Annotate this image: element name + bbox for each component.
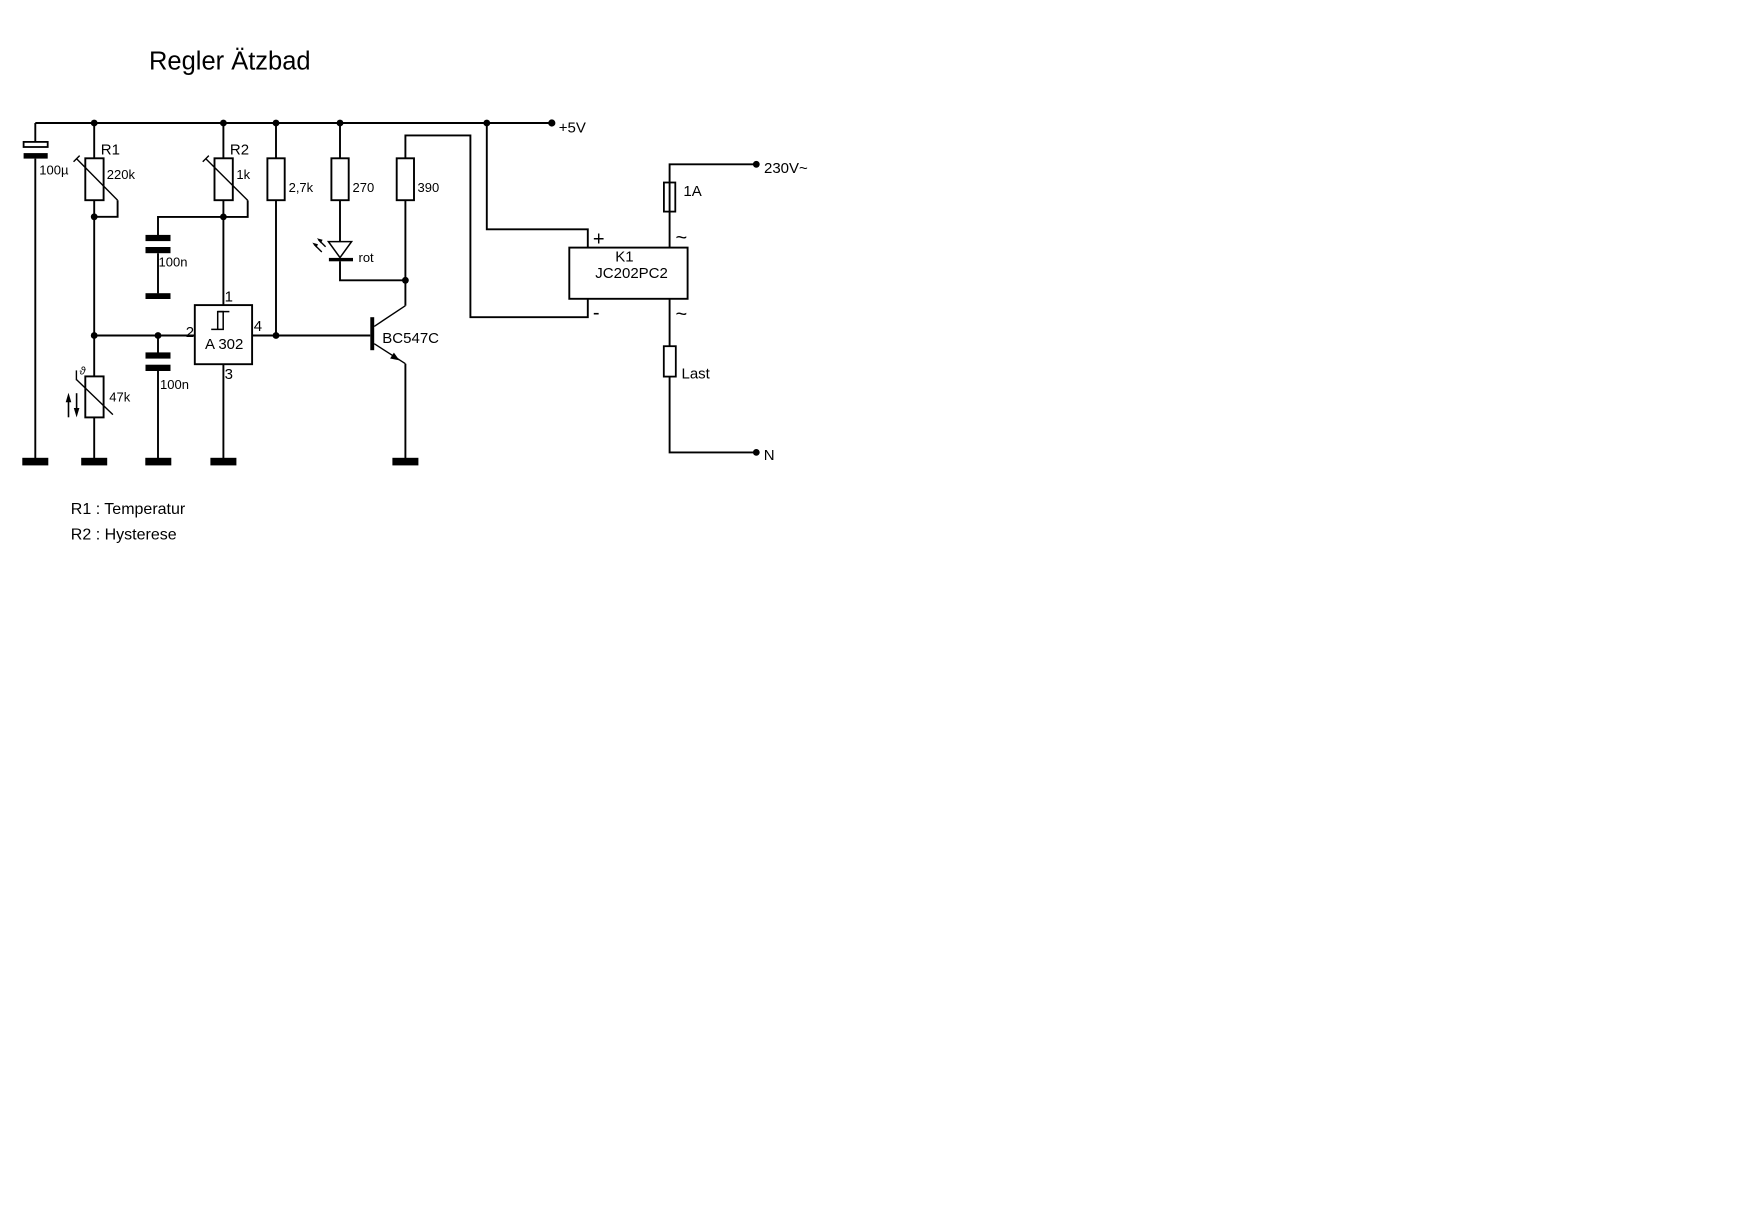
- svg-text:R2: R2: [230, 142, 249, 159]
- wire 390 top bend to K1 minus: [405, 135, 587, 317]
- svg-text:N: N: [764, 447, 775, 464]
- svg-text:+5V: +5V: [559, 119, 586, 136]
- wire +5V rail: [35, 122, 551, 124]
- svg-text:1: 1: [225, 289, 233, 306]
- wire rail to 2,7k: [275, 123, 277, 158]
- wire emitter to ground: [404, 364, 406, 458]
- thermistor arrows up/down: [66, 393, 80, 418]
- wire K1 to fuse and 230V terminal: [670, 164, 757, 247]
- capacitor C2 100n upper: [146, 235, 188, 270]
- wire R2 bottom to A302 pin1: [222, 200, 224, 305]
- svg-text:4: 4: [254, 318, 262, 335]
- node rail junction R1: [91, 120, 98, 127]
- wire junction to C3: [157, 336, 159, 353]
- node rail junction 2,7k: [273, 120, 280, 127]
- node rail junction 270: [337, 120, 344, 127]
- wire rail to R1: [93, 123, 95, 158]
- wire A302 pin3 to ground: [222, 364, 224, 458]
- wire +5V to K1 plus: [487, 123, 588, 248]
- node rail junction K1 feed: [483, 120, 490, 127]
- led D1 rot: [312, 238, 374, 265]
- resistor R6 390: [397, 158, 440, 200]
- node N terminal: [753, 449, 760, 456]
- wire 390 bottom to collector node: [404, 200, 406, 280]
- wire K1 to Last: [669, 299, 671, 346]
- node collector junction: [402, 277, 409, 284]
- wire A302 pin4 row: [252, 335, 370, 337]
- wire 100u to ground: [34, 159, 36, 458]
- capacitor C3 100n lower: [146, 352, 189, 392]
- wire A302 pin2 row: [94, 335, 195, 337]
- wire C3 to ground: [157, 371, 159, 458]
- ground under thermistor: [81, 458, 107, 466]
- svg-text:R1: R1: [101, 142, 120, 159]
- svg-text:270: 270: [353, 180, 375, 195]
- svg-text:220k: 220k: [107, 167, 136, 182]
- svg-text:100n: 100n: [160, 377, 189, 392]
- svg-text:1A: 1A: [683, 183, 701, 200]
- resistor R2 1k potentiometer: [203, 142, 251, 201]
- wire rail to 270: [339, 123, 341, 158]
- resistor R3 2,7k: [267, 158, 313, 200]
- ground under 100u: [22, 458, 48, 466]
- wire junction to C2: [158, 217, 223, 235]
- wire C2 to ground: [157, 253, 159, 293]
- resistor R1 220k potentiometer: [74, 142, 136, 201]
- svg-text:ϑ: ϑ: [80, 365, 87, 377]
- wire collector: [404, 280, 406, 305]
- svg-text:A 302: A 302: [205, 336, 243, 353]
- load Last: [664, 346, 711, 382]
- ground under C2: [146, 293, 171, 299]
- node +5V terminal: [548, 119, 555, 126]
- wire thermistor to ground: [93, 417, 95, 458]
- svg-text:~: ~: [676, 304, 688, 326]
- node pin2 junction left: [91, 332, 98, 339]
- svg-text:230V~: 230V~: [764, 160, 808, 177]
- node rail junction R2: [220, 120, 227, 127]
- svg-text:~: ~: [676, 227, 688, 249]
- wire Last to N terminal: [670, 377, 757, 453]
- svg-text:3: 3: [225, 366, 233, 383]
- svg-text:2: 2: [186, 324, 194, 341]
- svg-text:2,7k: 2,7k: [289, 180, 314, 195]
- svg-text:rot: rot: [359, 250, 375, 265]
- svg-text:Last: Last: [682, 366, 711, 383]
- node R1 wiper junction: [91, 213, 98, 220]
- resistor R4 270: [331, 158, 374, 200]
- node 230V terminal: [753, 161, 760, 168]
- wire 2,7k to base row: [275, 200, 277, 335]
- wire R1 wiper: [94, 200, 117, 217]
- svg-text:R1 : Temperatur: R1 : Temperatur: [71, 501, 186, 518]
- wire rail to R2: [222, 123, 224, 158]
- node pin4 junction 2,7k: [273, 332, 280, 339]
- ground under emitter: [392, 458, 418, 466]
- node R2 wiper junction: [220, 214, 227, 221]
- ground under A302: [210, 458, 236, 466]
- svg-text:K1: K1: [615, 248, 633, 265]
- wire junction to thermistor: [93, 336, 95, 377]
- node pin2 junction C3: [155, 332, 162, 339]
- svg-text:47k: 47k: [109, 390, 130, 405]
- transistor Q1 BC547C: [370, 306, 439, 364]
- svg-text:+: +: [593, 228, 605, 250]
- svg-text:1k: 1k: [236, 167, 250, 182]
- ground under C3: [145, 458, 171, 466]
- wire R1 bottom to pin2 row: [93, 200, 95, 335]
- thermistor R5 47k: [76, 365, 130, 417]
- capacitor C1 100u: [24, 142, 69, 177]
- relay K1 JC202PC2: [569, 248, 687, 299]
- svg-text:R2 : Hysterese: R2 : Hysterese: [71, 526, 177, 543]
- svg-text:390: 390: [418, 180, 440, 195]
- svg-text:-: -: [593, 302, 600, 324]
- wire R2 wiper: [223, 200, 247, 217]
- fuse F1 1A: [664, 183, 702, 212]
- svg-text:100µ: 100µ: [39, 162, 69, 177]
- svg-text:100n: 100n: [159, 255, 188, 270]
- svg-text:JC202PC2: JC202PC2: [595, 265, 668, 282]
- svg-text:BC547C: BC547C: [382, 330, 439, 347]
- ic U1 A302: [195, 305, 252, 364]
- wire 270 to LED: [339, 200, 341, 241]
- wire 100u branch top: [34, 123, 36, 141]
- svg-text:Regler Ätzbad: Regler Ätzbad: [149, 47, 311, 75]
- wire LED cathode to collector node: [340, 261, 405, 280]
